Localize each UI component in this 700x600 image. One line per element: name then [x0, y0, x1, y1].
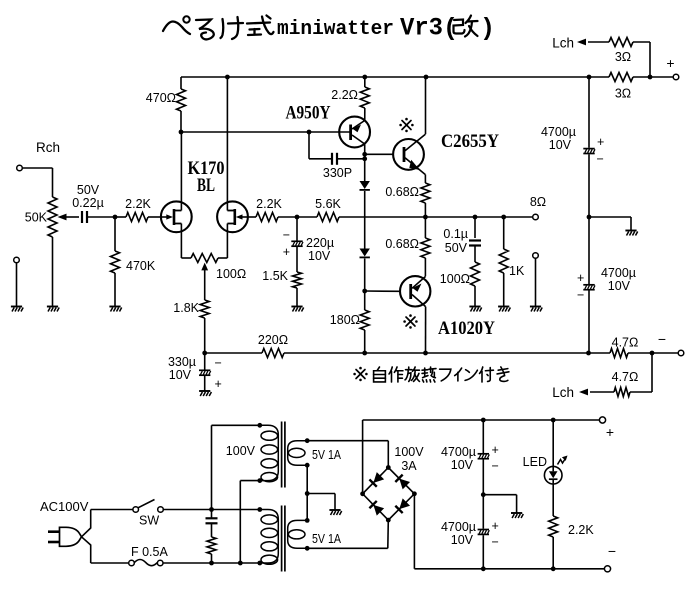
potentiometer 100ohm [191, 254, 218, 263]
wire PSU cap2 bottom [482, 535, 484, 569]
wire Lch top branch [649, 42, 651, 77]
wire wiper down to 1.8K [204, 268, 206, 300]
wire bridge + up [362, 420, 364, 494]
resistor 2.2K LED [549, 516, 558, 537]
wire feedback node down [296, 217, 298, 241]
wire ground stub [630, 217, 632, 230]
junction LED branch bottom [551, 566, 556, 571]
svg-text:10V: 10V [451, 533, 474, 547]
arrow Lch bottom [579, 389, 588, 396]
svg-text:470K: 470K [126, 259, 156, 273]
wire 0.1u to 100ohm [474, 246, 476, 263]
wire D1 to D2 [364, 191, 366, 249]
svg-text:0.68Ω: 0.68Ω [385, 237, 419, 251]
svg-text:5.6K: 5.6K [315, 197, 341, 211]
wire mid to 4700u lower [588, 217, 590, 284]
wire secondary2 to bridge [307, 547, 388, 549]
node feedback [295, 215, 300, 220]
svg-text:3Ω: 3Ω [615, 87, 631, 101]
junction 330P branch [307, 130, 312, 135]
svg-text:50V: 50V [77, 183, 100, 197]
coil primary1 100V [260, 425, 279, 480]
svg-text:BL: BL [197, 175, 215, 196]
terminal + output [673, 74, 679, 80]
wire 180ohm top [364, 291, 366, 310]
ground pot [47, 306, 58, 308]
wire 1.5K to ground [296, 288, 298, 306]
wire Lch bottom horiz [630, 391, 652, 393]
junction rail/2.2ohm [362, 75, 367, 80]
resistor 1K [499, 249, 508, 273]
wire 330P branch down [308, 132, 310, 159]
junction PSU mid [481, 492, 486, 497]
fuse right [157, 560, 163, 566]
svg-text:0.22µ: 0.22µ [72, 196, 104, 210]
wire right JFET source [226, 224, 228, 259]
wire PSU + rail [363, 419, 600, 421]
resistor 4.7ohm Lch [614, 388, 630, 397]
junction bridge top [386, 465, 391, 470]
svg-text:−: − [597, 152, 604, 166]
svg-text:−: − [492, 535, 499, 549]
diode bridge bottom-left [369, 501, 384, 516]
wire Lch bottom branch [651, 353, 653, 392]
svg-text:1.8K: 1.8K [173, 301, 199, 315]
svg-text:1.5K: 1.5K [262, 269, 288, 283]
junction snubber bottom [209, 561, 214, 566]
capacitor 0.22u input [81, 211, 83, 223]
wire rail to 4700u upper [588, 77, 590, 148]
arrow Lch top [577, 39, 586, 46]
junction A1020 base node [362, 289, 367, 294]
svg-text:Rch: Rch [36, 140, 60, 155]
wire to feedback node [278, 216, 317, 218]
wire plug down [90, 545, 92, 564]
resistor 1.5K [293, 272, 302, 288]
wire top positive rail [181, 76, 609, 78]
wire bottom rail left [205, 352, 262, 354]
wire Lch top horiz [633, 41, 650, 43]
svg-text:4.7Ω: 4.7Ω [612, 370, 639, 384]
wire 1.8K to node [204, 318, 206, 353]
LED indicator [544, 466, 562, 484]
wire 330P to collector [338, 158, 365, 160]
junction primary1 return/bottom [238, 561, 243, 566]
wire D2 to A1020 base node [364, 259, 366, 292]
terminal primary1 top [257, 423, 262, 428]
svg-text:+: + [215, 377, 222, 391]
wire A950Y collector down [364, 144, 366, 154]
wire PSU ground stub [516, 495, 518, 513]
wire down to bridge top [387, 441, 389, 468]
capacitor 4700u 10V PSU upper [478, 453, 489, 455]
wire center tap to ground [307, 493, 335, 495]
ground PSU mid [511, 512, 522, 514]
junction LED branch top [551, 418, 556, 423]
ground 1.5K [291, 306, 302, 308]
node gate left [113, 215, 118, 220]
wire LED top [552, 420, 554, 467]
ground mid rail [625, 230, 636, 232]
svg-text:F 0.5A: F 0.5A [131, 545, 168, 559]
wire primary1 feed up [211, 425, 213, 509]
100ohm wiper arrow up [201, 263, 208, 271]
svg-text:4700µ: 4700µ [441, 445, 476, 459]
junction A1020 collector/bottom rail [423, 351, 428, 356]
terminal input return [14, 257, 20, 263]
label heatsink mark A1020 [406, 317, 415, 326]
wire zobel down [474, 217, 476, 238]
coil primary2 [260, 510, 279, 564]
wire 100ohm to ground [474, 286, 476, 306]
resistor 1.8K [200, 300, 209, 318]
svg-text:(: ( [443, 14, 458, 43]
svg-text:100V: 100V [226, 444, 256, 458]
svg-text:4.7Ω: 4.7Ω [612, 336, 639, 350]
wire 4700u lower to bottom rail [588, 291, 590, 354]
wire snubber cap top [211, 510, 213, 519]
wire input return [16, 263, 18, 306]
svg-text:1K: 1K [509, 264, 525, 278]
wire left JFET drain [180, 132, 182, 211]
wire node to 330u cap [204, 353, 206, 370]
svg-text:−: − [283, 228, 290, 242]
junction mid rail caps [587, 215, 592, 220]
bridge rectifier 100V 3A [363, 468, 415, 521]
wire 470ohm top [180, 77, 182, 89]
wire right JFET drain to rail [226, 77, 228, 211]
label note mark [356, 370, 365, 379]
svg-text:5V 1A: 5V 1A [312, 448, 342, 462]
resistor 470K [111, 251, 120, 273]
wire PSU cap1 top [482, 420, 484, 453]
switch throw [158, 507, 164, 513]
svg-text:8Ω: 8Ω [530, 195, 546, 209]
svg-text:4700µ: 4700µ [441, 520, 476, 534]
svg-text:0.68Ω: 0.68Ω [385, 185, 419, 199]
coil secondary2 5V1A [288, 520, 308, 548]
wire 4700u to mid [588, 154, 590, 217]
capacitor 0.1u zobel [469, 239, 481, 241]
pot wiper arrow [58, 214, 67, 221]
potentiometer 50K [48, 197, 57, 237]
wire pot top [52, 168, 54, 197]
transistor Q5 A1020Y PNP [400, 276, 430, 306]
terminal secondary1 top [305, 438, 310, 443]
resistor 2.2K right gate [256, 213, 278, 222]
diode D1 [360, 181, 370, 189]
svg-text:+: + [666, 55, 674, 71]
svg-text:10V: 10V [608, 279, 631, 293]
junction bridge left [360, 491, 365, 496]
transformer core upper [281, 422, 283, 488]
svg-text:Lch: Lch [552, 36, 574, 51]
wire input to pot [23, 167, 53, 169]
svg-text:+: + [606, 424, 614, 440]
wire to A1020Y base [365, 290, 401, 292]
wire 1K down [503, 217, 505, 249]
wire PSU cap2 top [482, 495, 484, 529]
title: peruke-shiki miniwatter Vr3 (kai) [163, 16, 274, 40]
terminal secondary2 top [305, 518, 310, 523]
junction bridge bottom [386, 518, 391, 523]
svg-text:0.1µ: 0.1µ [443, 227, 468, 241]
wire top rail to + terminal [633, 76, 673, 78]
svg-text:2.2K: 2.2K [256, 197, 282, 211]
svg-text:A950Y: A950Y [286, 103, 331, 124]
wire to 470K [114, 217, 116, 251]
wire 470K to ground [114, 273, 116, 306]
svg-text:+: + [283, 245, 290, 259]
wire 1K to ground [503, 273, 505, 306]
switch pole [133, 507, 139, 513]
wire snubber bottom [211, 554, 213, 563]
resistor 2.2ohm [360, 87, 369, 108]
junction PSU cap2 bottom [481, 566, 486, 571]
junction bridge right [412, 491, 417, 496]
svg-text:2.2Ω: 2.2Ω [331, 88, 358, 102]
junction Lch bottom branch [650, 351, 655, 356]
wire bottom rail to - terminal [628, 352, 678, 354]
resistor 100ohm zobel [471, 262, 480, 286]
junction PSU cap1 [481, 418, 486, 423]
svg-text:470Ω: 470Ω [146, 91, 176, 105]
wire mid to ground stub [589, 216, 631, 218]
junction 330P [362, 156, 367, 161]
wire plug upper diagonal [82, 528, 91, 537]
terminal primary2 bottom [257, 561, 262, 566]
svg-text:Lch: Lch [552, 385, 574, 400]
wire center tap [306, 465, 308, 520]
svg-text:10V: 10V [451, 458, 474, 472]
resistor 4.7ohm main [610, 349, 628, 358]
transistor Q1 2SK170 left JFET [161, 201, 192, 232]
wire to primary1 top [212, 424, 260, 426]
capacitor 330P [331, 153, 333, 165]
terminal secondary2 bottom [305, 546, 310, 551]
wire LED to 2.2K [552, 483, 554, 516]
coil secondary1 5V1A [288, 441, 308, 466]
resistor 0.68ohm lower [421, 238, 430, 258]
wire to left JFET gate [148, 216, 161, 218]
svg-text:AC100V: AC100V [40, 499, 89, 514]
wire PSU - rail [414, 568, 604, 570]
wire pot to ground [52, 237, 54, 306]
wire [115, 216, 126, 218]
wire speaker return to ground [535, 259, 537, 306]
wire 2.2ohm to emitter [364, 108, 366, 121]
wire source left to 100ohm [181, 257, 191, 259]
svg-text:−: − [215, 356, 222, 370]
junction rail/C2655Y collector [424, 75, 429, 80]
svg-text:LED: LED [523, 455, 547, 469]
wire 180ohm bottom [364, 330, 366, 353]
AC plug [48, 530, 60, 533]
wire to diode D1 [364, 159, 366, 181]
note text jisaku hounetsu fin tsuki (vector kanji) [377, 367, 379, 370]
junction 470ohm/drain [179, 130, 184, 135]
wire A1020Y collector to rail [425, 307, 427, 353]
wire drain rail y132 to A950Y base [181, 131, 350, 133]
terminal PSU - [604, 566, 610, 572]
wire C2655Y collector to rail [425, 77, 427, 134]
terminal primary2 top [257, 507, 262, 512]
svg-text:3A: 3A [401, 459, 417, 473]
junction 4700u/bottom rail [586, 351, 591, 356]
transistor Q4 C2655Y NPN [393, 139, 424, 170]
capacitor 330u 10V [199, 369, 210, 371]
terminal - output [678, 350, 684, 356]
svg-text:100Ω: 100Ω [440, 272, 470, 286]
resistor snubber [207, 537, 216, 554]
svg-text:10V: 10V [308, 249, 331, 263]
svg-text:+: + [577, 271, 584, 285]
LED light arrows [558, 458, 567, 465]
wire plug lower diagonal [82, 537, 91, 545]
wire fuse to transformer [163, 562, 260, 564]
svg-text:100Ω: 100Ω [216, 267, 246, 281]
junction center tap [305, 491, 310, 496]
resistor 220ohm [262, 349, 284, 358]
wire 2.2ohm top [364, 77, 366, 87]
wire primary1 bottom [240, 480, 259, 482]
svg-text:3Ω: 3Ω [615, 50, 631, 64]
capacitor 4700u 10V upper rail [583, 148, 594, 150]
wire PSU mid to ground [483, 494, 516, 496]
wire plug up [90, 510, 92, 529]
ground center tap [329, 509, 340, 511]
resistor 5.6K [317, 213, 339, 222]
wire to switch [91, 509, 133, 511]
terminal secondary1 bottom [305, 463, 310, 468]
wire to Lch arrow top [588, 41, 609, 43]
wire 0.68ohm to output [424, 203, 426, 217]
svg-text:2.2K: 2.2K [568, 523, 594, 537]
wire PSU cap1 bottom [482, 460, 484, 495]
wire left JFET source [180, 224, 182, 259]
resistor 470ohm [177, 89, 186, 111]
transistor Q3 A950Y PNP [339, 117, 370, 148]
wire snubber mid [211, 523, 213, 537]
wire 2.2K to - rail [552, 537, 554, 569]
svg-text:−: − [577, 288, 584, 302]
ground 470K [109, 306, 120, 308]
ground 330u [199, 390, 210, 392]
svg-text:330µ: 330µ [168, 355, 196, 369]
resistor 3ohm Lch top [609, 38, 633, 47]
wire 0.68ohm to A1020 emitter [424, 258, 426, 276]
svg-text:100V: 100V [394, 445, 424, 459]
svg-text:180Ω: 180Ω [330, 313, 360, 327]
capacitor 220u 10V feedback [291, 240, 302, 242]
junction rail/4700u cap [587, 75, 592, 80]
ground 1K [498, 306, 509, 308]
wire cap to gate node [87, 216, 115, 218]
svg-text:220µ: 220µ [306, 236, 334, 250]
wire to Lch arrow bottom [590, 391, 614, 393]
junction tail node [202, 351, 207, 356]
wire up to bridge bottom [387, 520, 390, 548]
svg-text:miniwatter: miniwatter [277, 18, 394, 41]
svg-text:2.2K: 2.2K [125, 197, 151, 211]
terminal speaker return [533, 253, 539, 259]
wire output to 0.68ohm lower [424, 217, 426, 238]
terminal input Rch [17, 165, 23, 171]
wire 220u to 1.5K [296, 247, 298, 272]
junction 180ohm/bottom rail [362, 351, 367, 356]
wire to C2655Y base [365, 153, 394, 155]
wire wiper to cap [67, 216, 80, 218]
wire to fuse [91, 562, 129, 564]
svg-text:4700µ: 4700µ [601, 266, 636, 280]
svg-text:Vr3: Vr3 [400, 14, 443, 43]
diode bridge bottom-right [395, 498, 410, 513]
svg-text:−: − [608, 543, 616, 559]
wire center tap ground stub [334, 494, 336, 511]
svg-text:C2655Y: C2655Y [441, 131, 499, 152]
diode bridge top-right [395, 475, 410, 490]
wire 100ohm to source right [218, 257, 227, 259]
ground zobel [469, 306, 480, 308]
svg-text:−: − [658, 331, 666, 347]
svg-text:A1020Y: A1020Y [438, 318, 495, 339]
transistor Q2 2SK170 right JFET [217, 201, 248, 232]
junction collector/C2655 base [362, 152, 367, 157]
wire secondary1 to bridge [307, 440, 388, 442]
resistor 2.2K gate left [126, 213, 148, 222]
junction 1K [501, 215, 506, 220]
resistor 180ohm [360, 310, 369, 330]
junction rail/Lch branch [648, 75, 653, 80]
junction output node [423, 215, 428, 220]
svg-text:+: + [492, 519, 499, 533]
wire right JFET gate [248, 216, 256, 218]
terminal 8ohm output [533, 214, 539, 220]
wire emitter to 0.68ohm [424, 175, 426, 183]
wire primary1 return down [239, 481, 241, 563]
ground input return [11, 306, 22, 308]
wire 330u to ground [204, 376, 206, 391]
svg-text:10V: 10V [549, 138, 572, 152]
wire bridge - down [413, 494, 415, 569]
svg-text:+: + [492, 443, 499, 457]
title kanji kai [454, 16, 478, 37]
svg-text:10V: 10V [169, 368, 192, 382]
transformer core lower [281, 506, 283, 572]
svg-text:−: − [492, 459, 499, 473]
junction zobel [473, 215, 478, 220]
wire output line [339, 216, 532, 218]
wire to 330P [309, 158, 331, 160]
wire bottom rail [284, 352, 610, 354]
capacitor 4700u 10V PSU lower [478, 529, 489, 531]
diode bridge top-left [369, 472, 384, 487]
capacitor 4700u 10V lower rail [583, 284, 594, 286]
wire 470ohm bottom [180, 111, 182, 132]
resistor 3ohm main rail [609, 73, 633, 82]
wire switch to transformer [163, 509, 259, 511]
svg-text:330P: 330P [323, 166, 352, 180]
resistor 0.68ohm upper [421, 183, 430, 203]
svg-text:+: + [597, 135, 604, 149]
capacitor snubber [206, 517, 218, 519]
svg-text:220Ω: 220Ω [258, 333, 288, 347]
junction rail/right JFET drain [225, 75, 230, 80]
svg-text:5V 1A: 5V 1A [312, 532, 342, 546]
junction snubber top [209, 507, 214, 512]
label heatsink mark C2655 [402, 121, 411, 130]
svg-text:): ) [480, 14, 495, 43]
